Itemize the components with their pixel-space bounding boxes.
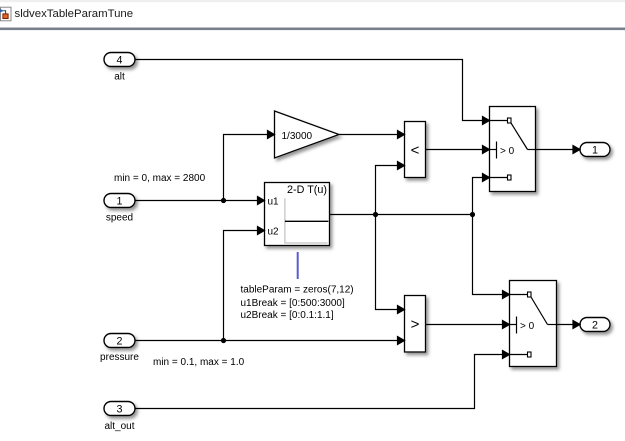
svg-text:pressure: pressure (100, 352, 139, 363)
svg-text:u1Break = [0:500:3000]: u1Break = [0:500:3000] (241, 298, 345, 309)
wire relational < output to switch1 input2 (426, 146, 490, 154)
svg-text:sldvexTableParamTune: sldvexTableParamTune (15, 8, 134, 20)
wire relational > output to switch2 input2 (426, 321, 510, 329)
wire branch to relational < input2 (376, 162, 405, 215)
inport 3 (alt_out) (104, 402, 135, 416)
annotation connector line (blue) (297, 252, 299, 279)
wire branch to switch2 input1 (473, 215, 510, 299)
svg-text:2-D T(u): 2-D T(u) (287, 184, 327, 196)
switch block 2 (510, 281, 557, 367)
wire branch to switch1 input3 (473, 174, 490, 215)
annotation min = 0, max = 2800 (114, 173, 206, 184)
wire gain output to relational < input1 (339, 131, 405, 139)
annotation min = 0.1, max = 1.0 (153, 357, 245, 368)
inport 1 (speed) (104, 194, 135, 208)
svg-text:3: 3 (117, 404, 123, 416)
annotation parameter text block (241, 285, 354, 321)
svg-text:4: 4 (117, 55, 123, 67)
breadcrumb title text (15, 8, 134, 20)
label pressure (100, 352, 139, 363)
2-D lookup table block (265, 183, 330, 246)
inport 2 (pressure) (104, 334, 135, 348)
switch block 1 (490, 107, 536, 192)
svg-text:> 0: > 0 (520, 321, 535, 332)
breadcrumb model icon (0, 7, 11, 21)
svg-text:2: 2 (117, 336, 123, 348)
wire speed branch to gain input (224, 131, 275, 201)
svg-text:>: > (411, 316, 420, 333)
svg-text:> 0: > 0 (500, 146, 515, 157)
svg-text:min = 0, max = 2800: min = 0, max = 2800 (114, 173, 206, 184)
junction speed branch (221, 198, 226, 203)
svg-text:u2: u2 (268, 227, 280, 238)
label alt (114, 72, 125, 83)
gain block 1/3000 (275, 111, 340, 158)
junction lookup output at x472 (470, 212, 475, 217)
outport 1 (580, 143, 610, 157)
outport 2 (580, 318, 610, 332)
breadcrumb bar (0, 0, 625, 30)
wire pressure branch to lookup u2 (224, 227, 265, 341)
inport 4 (alt) (104, 53, 135, 67)
relational operator block < (405, 122, 426, 178)
label speed (106, 212, 133, 223)
svg-text:1/3000: 1/3000 (282, 131, 313, 142)
svg-text:u2Break = [0:0.1:1.1]: u2Break = [0:0.1:1.1] (241, 310, 334, 321)
svg-text:alt: alt (114, 72, 125, 83)
svg-text:tableParam = zeros(7,12): tableParam = zeros(7,12) (241, 285, 354, 296)
svg-text:alt_out: alt_out (104, 421, 134, 432)
relational operator block > (405, 296, 426, 353)
svg-text:<: < (411, 142, 420, 159)
wire alt_out: port3 to switch2 input3 (135, 351, 510, 409)
junction pressure branch (221, 338, 226, 343)
svg-text:u1: u1 (268, 197, 280, 208)
svg-text:min = 0.1, max = 1.0: min = 0.1, max = 1.0 (153, 357, 245, 368)
wire switch2 output to outport 2 (557, 321, 581, 329)
label alt_out (104, 421, 134, 432)
wire pressure: port2 to relational > input2 (135, 337, 405, 345)
svg-text:1: 1 (592, 145, 598, 157)
wire lookup output trunk (330, 214, 473, 216)
wire switch1 output to outport 1 (536, 146, 581, 154)
wire speed: port1 to lookup u1 (135, 197, 265, 205)
junction lookup output at x374 (373, 212, 378, 217)
svg-text:1: 1 (117, 196, 123, 208)
svg-text:2: 2 (592, 320, 598, 332)
svg-text:speed: speed (106, 212, 133, 223)
wire branch to relational > input1 (376, 215, 405, 314)
wire alt: port4 to switch1 input1 (135, 60, 490, 125)
